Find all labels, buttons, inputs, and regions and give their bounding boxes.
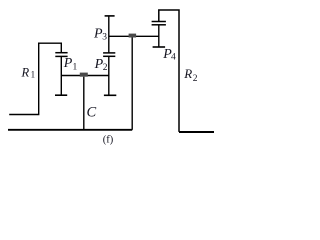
svg-text:(f): (f) [103, 134, 114, 145]
svg-text:2: 2 [193, 74, 198, 84]
svg-text:1: 1 [31, 70, 35, 80]
svg-text:3: 3 [102, 32, 107, 42]
svg-text:R: R [183, 66, 192, 81]
svg-text:P: P [63, 56, 73, 71]
svg-text:2: 2 [103, 63, 108, 73]
svg-text:C: C [87, 105, 97, 121]
svg-text:1: 1 [73, 62, 78, 72]
svg-text:4: 4 [171, 53, 176, 63]
svg-text:R: R [21, 65, 30, 79]
